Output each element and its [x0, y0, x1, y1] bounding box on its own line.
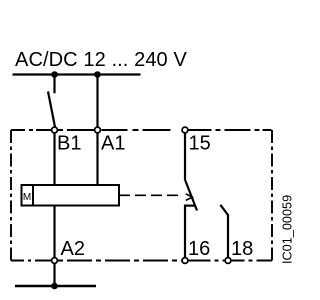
- svg-text:IC01_00059: IC01_00059: [281, 195, 295, 264]
- svg-text:16: 16: [188, 238, 210, 260]
- svg-text:15: 15: [189, 133, 211, 155]
- svg-text:18: 18: [231, 238, 253, 260]
- svg-text:B1: B1: [57, 133, 81, 155]
- svg-text:AC/DC 12 ... 240 V: AC/DC 12 ... 240 V: [15, 49, 187, 71]
- svg-text:A2: A2: [61, 238, 85, 260]
- svg-text:A1: A1: [101, 133, 125, 155]
- svg-text:M: M: [23, 192, 31, 203]
